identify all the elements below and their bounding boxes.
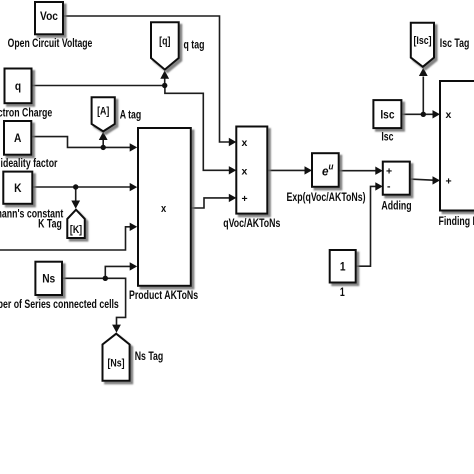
svg-text:Open Circuit Voltage: Open Circuit Voltage: [8, 38, 93, 51]
svg-text:ideality factor: ideality factor: [1, 157, 58, 171]
svg-text:Finding Isc: Finding Isc: [439, 215, 474, 229]
svg-text:qVoc/AKToNs: qVoc/AKToNs: [223, 217, 280, 231]
svg-text:A: A: [14, 132, 21, 145]
svg-text:+: +: [242, 193, 248, 205]
svg-text:Isc Tag: Isc Tag: [440, 37, 470, 51]
svg-text:[Isc]: [Isc]: [413, 35, 431, 47]
svg-text:+: +: [446, 176, 452, 188]
svg-text:K Tag: K Tag: [38, 217, 62, 231]
svg-text:q tag: q tag: [184, 38, 205, 52]
svg-text:Isc: Isc: [380, 109, 394, 122]
svg-text:1: 1: [340, 286, 345, 300]
svg-text:Number of Series connected cel: Number of Series connected cells: [0, 298, 119, 312]
svg-text:Exp(qVoc/AKToNs): Exp(qVoc/AKToNs): [287, 191, 366, 205]
svg-text:u: u: [329, 161, 335, 172]
svg-text:[A]: [A]: [97, 106, 109, 118]
svg-text:Product AKToNs: Product AKToNs: [129, 289, 198, 303]
svg-text:x: x: [446, 109, 452, 121]
svg-text:-: -: [387, 181, 391, 193]
svg-text:+: +: [386, 166, 392, 178]
svg-text:Ns Tag: Ns Tag: [135, 350, 164, 364]
svg-text:x: x: [161, 203, 166, 215]
svg-text:Ns: Ns: [42, 273, 55, 286]
svg-text:Voc: Voc: [40, 10, 58, 23]
svg-text:K: K: [14, 182, 21, 195]
svg-text:Isc: Isc: [381, 130, 393, 144]
svg-text:[K]: [K]: [70, 224, 82, 236]
svg-text:q: q: [15, 80, 21, 93]
svg-text:A tag: A tag: [120, 108, 142, 122]
svg-text:x: x: [242, 137, 248, 149]
svg-text:Electron Charge: Electron Charge: [0, 106, 52, 120]
svg-text:1: 1: [340, 261, 346, 274]
svg-text:Adding: Adding: [381, 199, 411, 213]
svg-text:[Ns]: [Ns]: [107, 358, 124, 370]
svg-text:x: x: [242, 165, 248, 177]
svg-text:[q]: [q]: [159, 36, 170, 48]
